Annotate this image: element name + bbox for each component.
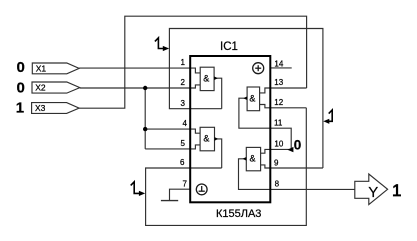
svg-text:7: 7 bbox=[183, 179, 188, 188]
wire X1 to pin 1 bbox=[79, 68, 200, 73]
gate G1 output arrow bbox=[214, 76, 218, 80]
wire pin 6 down around bottom to pin 12 bbox=[146, 108, 307, 226]
wire gate G3 output to pin 6 bbox=[215, 139, 222, 168]
wire pin 7 to ground bbox=[170, 189, 191, 200]
svg-text:X3: X3 bbox=[35, 103, 46, 113]
svg-text:13: 13 bbox=[274, 78, 283, 87]
svg-text:10: 10 bbox=[274, 140, 283, 149]
svg-text:2: 2 bbox=[181, 78, 186, 87]
svg-text:&: & bbox=[249, 154, 255, 164]
probe marker 0 at pin10/11 net bbox=[287, 147, 293, 152]
wire pin 12 stub bbox=[260, 105, 307, 108]
wire X2 branch down to pins 4,5 bbox=[144, 88, 146, 149]
wire pin 3 net up over inner top to pin 9 bbox=[169, 29, 323, 169]
svg-text:0: 0 bbox=[17, 59, 25, 76]
probe marker 1 at pin3 net left (top-left) bbox=[155, 38, 164, 49]
svg-text:1: 1 bbox=[181, 58, 186, 67]
NAND gate G3 (pins 4,5 in / 6 out) bbox=[200, 127, 214, 151]
svg-text:12: 12 bbox=[274, 98, 283, 107]
NAND gate G2 (pins 13,12 in / 11 out) bbox=[247, 87, 260, 111]
wire to pin 4 bbox=[145, 129, 200, 133]
NAND gate G4 (pins 10,9 in / 8 out) bbox=[246, 147, 260, 170]
svg-text:8: 8 bbox=[275, 179, 280, 188]
svg-text:1: 1 bbox=[16, 100, 24, 117]
junction dot X2 branch/pin4 bbox=[143, 127, 147, 131]
wire gate G1 output to pin 3 bbox=[214, 78, 222, 109]
svg-text:&: & bbox=[203, 134, 209, 144]
gate G3 output arrow bbox=[215, 137, 219, 141]
wire pin 13 stub bbox=[260, 88, 307, 93]
input connector X3 bbox=[32, 103, 80, 114]
output connector Y bbox=[355, 174, 388, 205]
svg-text:Y: Y bbox=[368, 184, 378, 201]
gate G2 output arrow bbox=[243, 96, 247, 100]
svg-text:X2: X2 bbox=[35, 83, 46, 93]
svg-text:1: 1 bbox=[392, 181, 401, 200]
wire to pin 5 bbox=[145, 145, 200, 149]
junction dot X2/pin2 bbox=[143, 86, 147, 90]
wire gate G2 output to pin 11 and down to pin 10 bbox=[239, 98, 291, 149]
probe marker 1 at pin3 net right (right side) bbox=[329, 110, 333, 121]
svg-text:IC1: IC1 bbox=[220, 41, 238, 53]
wire X2 to pin 2 bbox=[80, 85, 200, 88]
svg-text:4: 4 bbox=[183, 119, 188, 128]
svg-text:3: 3 bbox=[181, 99, 186, 108]
svg-text:11: 11 bbox=[274, 118, 283, 127]
wire X3 up over top to pin 13 bbox=[79, 16, 307, 108]
svg-text:0: 0 bbox=[294, 138, 302, 153]
svg-text:&: & bbox=[249, 93, 255, 103]
svg-text:6: 6 bbox=[180, 158, 185, 167]
input connector X2 bbox=[32, 82, 80, 93]
NAND gate G1 (pins 1,2 in / 3 out) bbox=[200, 67, 214, 90]
svg-text:X1: X1 bbox=[36, 64, 47, 74]
ground symbol circled (pin 7) bbox=[196, 184, 207, 195]
wire pin 9 stub bbox=[261, 165, 323, 168]
svg-text:0: 0 bbox=[17, 79, 25, 96]
svg-text:14: 14 bbox=[274, 60, 283, 69]
input connector X1 bbox=[32, 63, 79, 74]
svg-text:5: 5 bbox=[181, 139, 186, 148]
IC1 body bbox=[190, 56, 270, 202]
probe marker 1 at pin6 net (bottom-left) bbox=[131, 182, 140, 194]
ground bbox=[161, 200, 178, 202]
svg-text:&: & bbox=[203, 74, 209, 84]
wire pin 14 stub bbox=[270, 67, 291, 69]
wire gate G4 output to pin 8 and to output Y bbox=[239, 159, 355, 190]
power symbol circled plus (pin 14) bbox=[253, 63, 264, 74]
gate G4 output arrow bbox=[243, 157, 247, 161]
svg-text:9: 9 bbox=[274, 158, 279, 167]
wire pin 10 stub bbox=[261, 149, 292, 153]
svg-text:К155ЛА3: К155ЛА3 bbox=[216, 208, 261, 220]
